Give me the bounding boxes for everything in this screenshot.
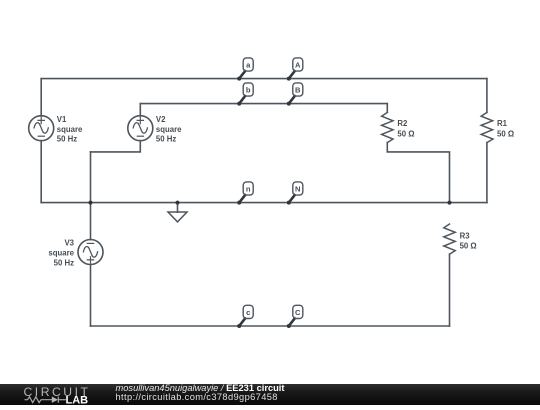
- node n flag: [237, 182, 253, 205]
- svg-text:R1: R1: [497, 119, 508, 128]
- svg-text:square: square: [57, 125, 83, 134]
- wire: V2 bottom L-bend to node column: [91, 141, 141, 152]
- node b flag: [237, 83, 253, 106]
- node N flag: [287, 182, 303, 205]
- ground: [168, 201, 187, 222]
- wire: node column down through junction to V3 top: [90, 152, 92, 240]
- wire: second horizontal (net b/B): [140, 103, 387, 105]
- svg-text:square: square: [48, 249, 74, 258]
- svg-text:50 Hz: 50 Hz: [57, 135, 77, 144]
- svg-text:c: c: [246, 308, 250, 317]
- node c flag: [237, 305, 253, 328]
- svg-text:B: B: [295, 85, 301, 94]
- junction: R3 column on middle wire: [448, 201, 452, 205]
- svg-text:N: N: [295, 184, 300, 193]
- svg-text:A: A: [295, 60, 301, 69]
- wire: bottom horizontal (net c/C): [91, 325, 450, 327]
- svg-text:LAB: LAB: [66, 394, 89, 405]
- voltage source V1: [29, 115, 83, 144]
- node B flag: [287, 83, 303, 106]
- svg-text:50 Ω: 50 Ω: [497, 130, 514, 139]
- resistor R1: [481, 112, 514, 142]
- wire: V1 bottom to middle wire: [40, 141, 42, 203]
- svg-text:square: square: [156, 125, 182, 134]
- resistor R2: [382, 112, 415, 142]
- svg-text:V1: V1: [57, 115, 67, 124]
- svg-text:50 Hz: 50 Hz: [156, 135, 176, 144]
- resistor R3: [444, 224, 477, 254]
- wire: middle horizontal (net n/N): [41, 202, 487, 204]
- svg-text:50 Ω: 50 Ω: [397, 130, 414, 139]
- footer attribution line: [116, 384, 285, 394]
- svg-text:b: b: [246, 85, 251, 94]
- svg-text:C: C: [295, 308, 301, 317]
- svg-text:V3: V3: [64, 239, 74, 248]
- wire: R1 bottom to middle wire: [486, 143, 488, 203]
- svg-text:V2: V2: [156, 115, 166, 124]
- voltage source V3: [48, 239, 103, 268]
- svg-text:50 Ω: 50 Ω: [460, 241, 477, 250]
- svg-text:R2: R2: [397, 119, 408, 128]
- svg-text:R3: R3: [460, 231, 471, 240]
- svg-text:a: a: [246, 60, 251, 69]
- voltage source V2: [128, 115, 182, 144]
- node a flag: [237, 58, 253, 81]
- wire: R2 bottom over to junction column: [387, 143, 449, 203]
- wire: R3 bottom lead to bottom wire: [449, 254, 451, 326]
- footer url line: [116, 393, 278, 403]
- wire: V1 top to top-left corner: [40, 79, 42, 116]
- wire: V2 top riser: [139, 104, 141, 116]
- wire: down to R2 top: [386, 104, 388, 113]
- node C flag: [287, 305, 303, 328]
- wire: V3 bottom down to bottom-left corner: [90, 265, 92, 326]
- svg-text:n: n: [246, 184, 251, 193]
- node A flag: [287, 58, 303, 81]
- wire: top horizontal (net a/A): [41, 78, 487, 80]
- svg-text:50 Hz: 50 Hz: [54, 259, 74, 268]
- wire: right vertical down to R1: [486, 79, 488, 113]
- CircuitLab logo: [0, 384, 112, 405]
- junction: V3 column on middle wire: [89, 201, 93, 205]
- footer bar: [0, 384, 540, 405]
